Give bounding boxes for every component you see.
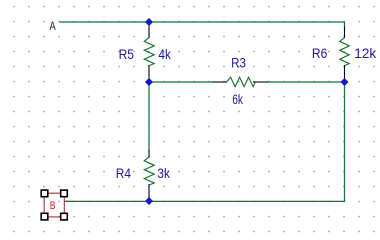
svg-text:R5: R5: [119, 46, 135, 62]
svg-text:R4: R4: [116, 165, 131, 181]
svg-text:R6: R6: [312, 45, 328, 61]
svg-text:3k: 3k: [157, 165, 170, 181]
svg-text:4k: 4k: [158, 46, 171, 62]
svg-text:12k: 12k: [354, 45, 377, 61]
svg-text:B: B: [50, 200, 56, 212]
svg-text:A: A: [50, 19, 56, 33]
svg-text:R3: R3: [231, 54, 246, 70]
svg-text:6k: 6k: [232, 91, 244, 107]
